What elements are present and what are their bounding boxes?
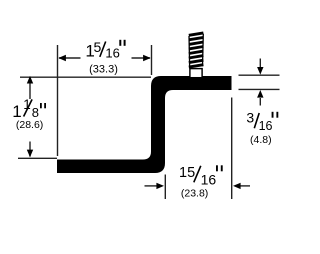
svg-text:8: 8 [32,105,39,120]
svg-text:(4.8): (4.8) [250,134,272,146]
threaded stud shank [190,69,202,78]
svg-text:5: 5 [94,39,102,55]
bottom line [239,88,280,90]
bottom extension line [18,157,57,159]
dim line segments [59,57,81,59]
dimension: bottom 15/16 (23.8) [145,98,251,200]
svg-text:15: 15 [179,165,195,181]
dimension: top 1 5/16 (33.3) [58,45,152,156]
svg-text:(28.6): (28.6) [16,119,43,131]
left extension line [57,45,59,156]
arrowhead right [143,55,151,61]
arrowhead up [257,90,263,98]
threaded stud threads [189,33,204,68]
dimension: right 3/16 (4.8) [239,59,280,106]
top line [239,74,280,76]
arrowhead right-pointing [156,183,164,189]
arrow shafts [259,59,261,68]
svg-text:16: 16 [259,119,273,133]
svg-text:16: 16 [201,171,217,187]
top extension line [20,76,151,78]
dim line segments [29,77,31,100]
arrowhead left [58,55,66,61]
svg-text:1: 1 [12,102,21,121]
dimension: left 1 1/8 (28.6) [18,77,151,159]
arrowhead left-pointing [233,183,241,189]
right extension line [151,45,153,75]
Z-bracket profile [57,76,232,173]
right extension line [231,98,233,200]
arrowhead down [27,150,33,158]
svg-text:(33.3): (33.3) [89,63,118,75]
arrow shafts [145,185,159,187]
arrowhead down [257,67,263,75]
left extension line [164,175,166,200]
svg-text:(23.8): (23.8) [181,188,208,200]
svg-text:16: 16 [105,46,119,61]
arrowhead up [27,76,33,84]
svg-text:3: 3 [246,110,254,126]
